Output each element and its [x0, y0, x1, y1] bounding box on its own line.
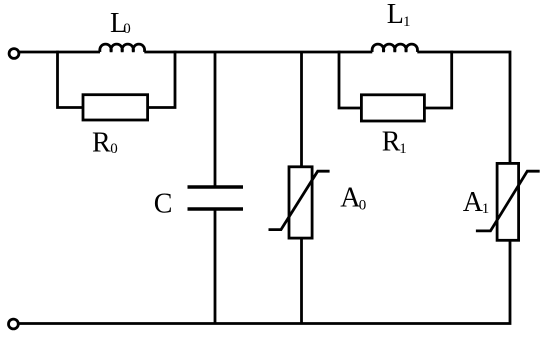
terminal: bottom-left — [9, 319, 19, 329]
resistor R1 — [361, 95, 424, 121]
terminal: top-left input — [9, 49, 19, 59]
label A0 — [340, 183, 366, 214]
label L1 — [387, 0, 411, 30]
varistor A0 diagonal stroke — [269, 171, 330, 229]
label R1 — [382, 127, 407, 158]
wire: top rail right segment (L1 to corner), down to A1 — [417, 52, 510, 163]
wire: A0 bottom stem — [300, 238, 303, 323]
wire: A0 top stem — [300, 52, 303, 167]
wire: top rail middle segment (L0 to L1) — [144, 51, 372, 54]
svg-text:0: 0 — [359, 198, 367, 214]
svg-text:0: 0 — [123, 21, 131, 37]
capacitor C plates — [188, 187, 244, 209]
wire: L1/R1 left branch — [339, 51, 361, 108]
wire: L1/R1 right branch — [424, 51, 451, 108]
resistor R0 — [83, 95, 148, 120]
wire: capacitor bottom stem — [214, 211, 217, 324]
svg-text:1: 1 — [399, 141, 407, 157]
varistor A1 diagonal stroke — [476, 171, 540, 231]
inductor L1 — [372, 44, 417, 52]
label L0 — [110, 8, 131, 39]
svg-text:R: R — [92, 128, 111, 159]
wire: L0/R0 right branch — [148, 51, 175, 108]
varistor A1 body — [497, 163, 518, 240]
svg-text:R: R — [382, 127, 401, 158]
wire: capacitor top stem — [214, 52, 217, 186]
inductor L0 — [100, 44, 145, 52]
svg-text:1: 1 — [482, 201, 490, 217]
svg-text:C: C — [154, 189, 173, 220]
svg-text:1: 1 — [403, 14, 411, 30]
varistor A0 body — [289, 167, 312, 238]
svg-text:0: 0 — [110, 141, 118, 157]
wire: L0/R0 left branch — [58, 51, 84, 108]
svg-text:L: L — [387, 0, 404, 30]
wire: top rail left segment (terminal to L0) — [19, 51, 100, 54]
label A1 — [463, 187, 490, 218]
svg-text:A: A — [463, 187, 484, 218]
label R0 — [92, 128, 118, 159]
wire: bottom rail from bottom terminal to right corner, up to A1 — [19, 240, 510, 323]
